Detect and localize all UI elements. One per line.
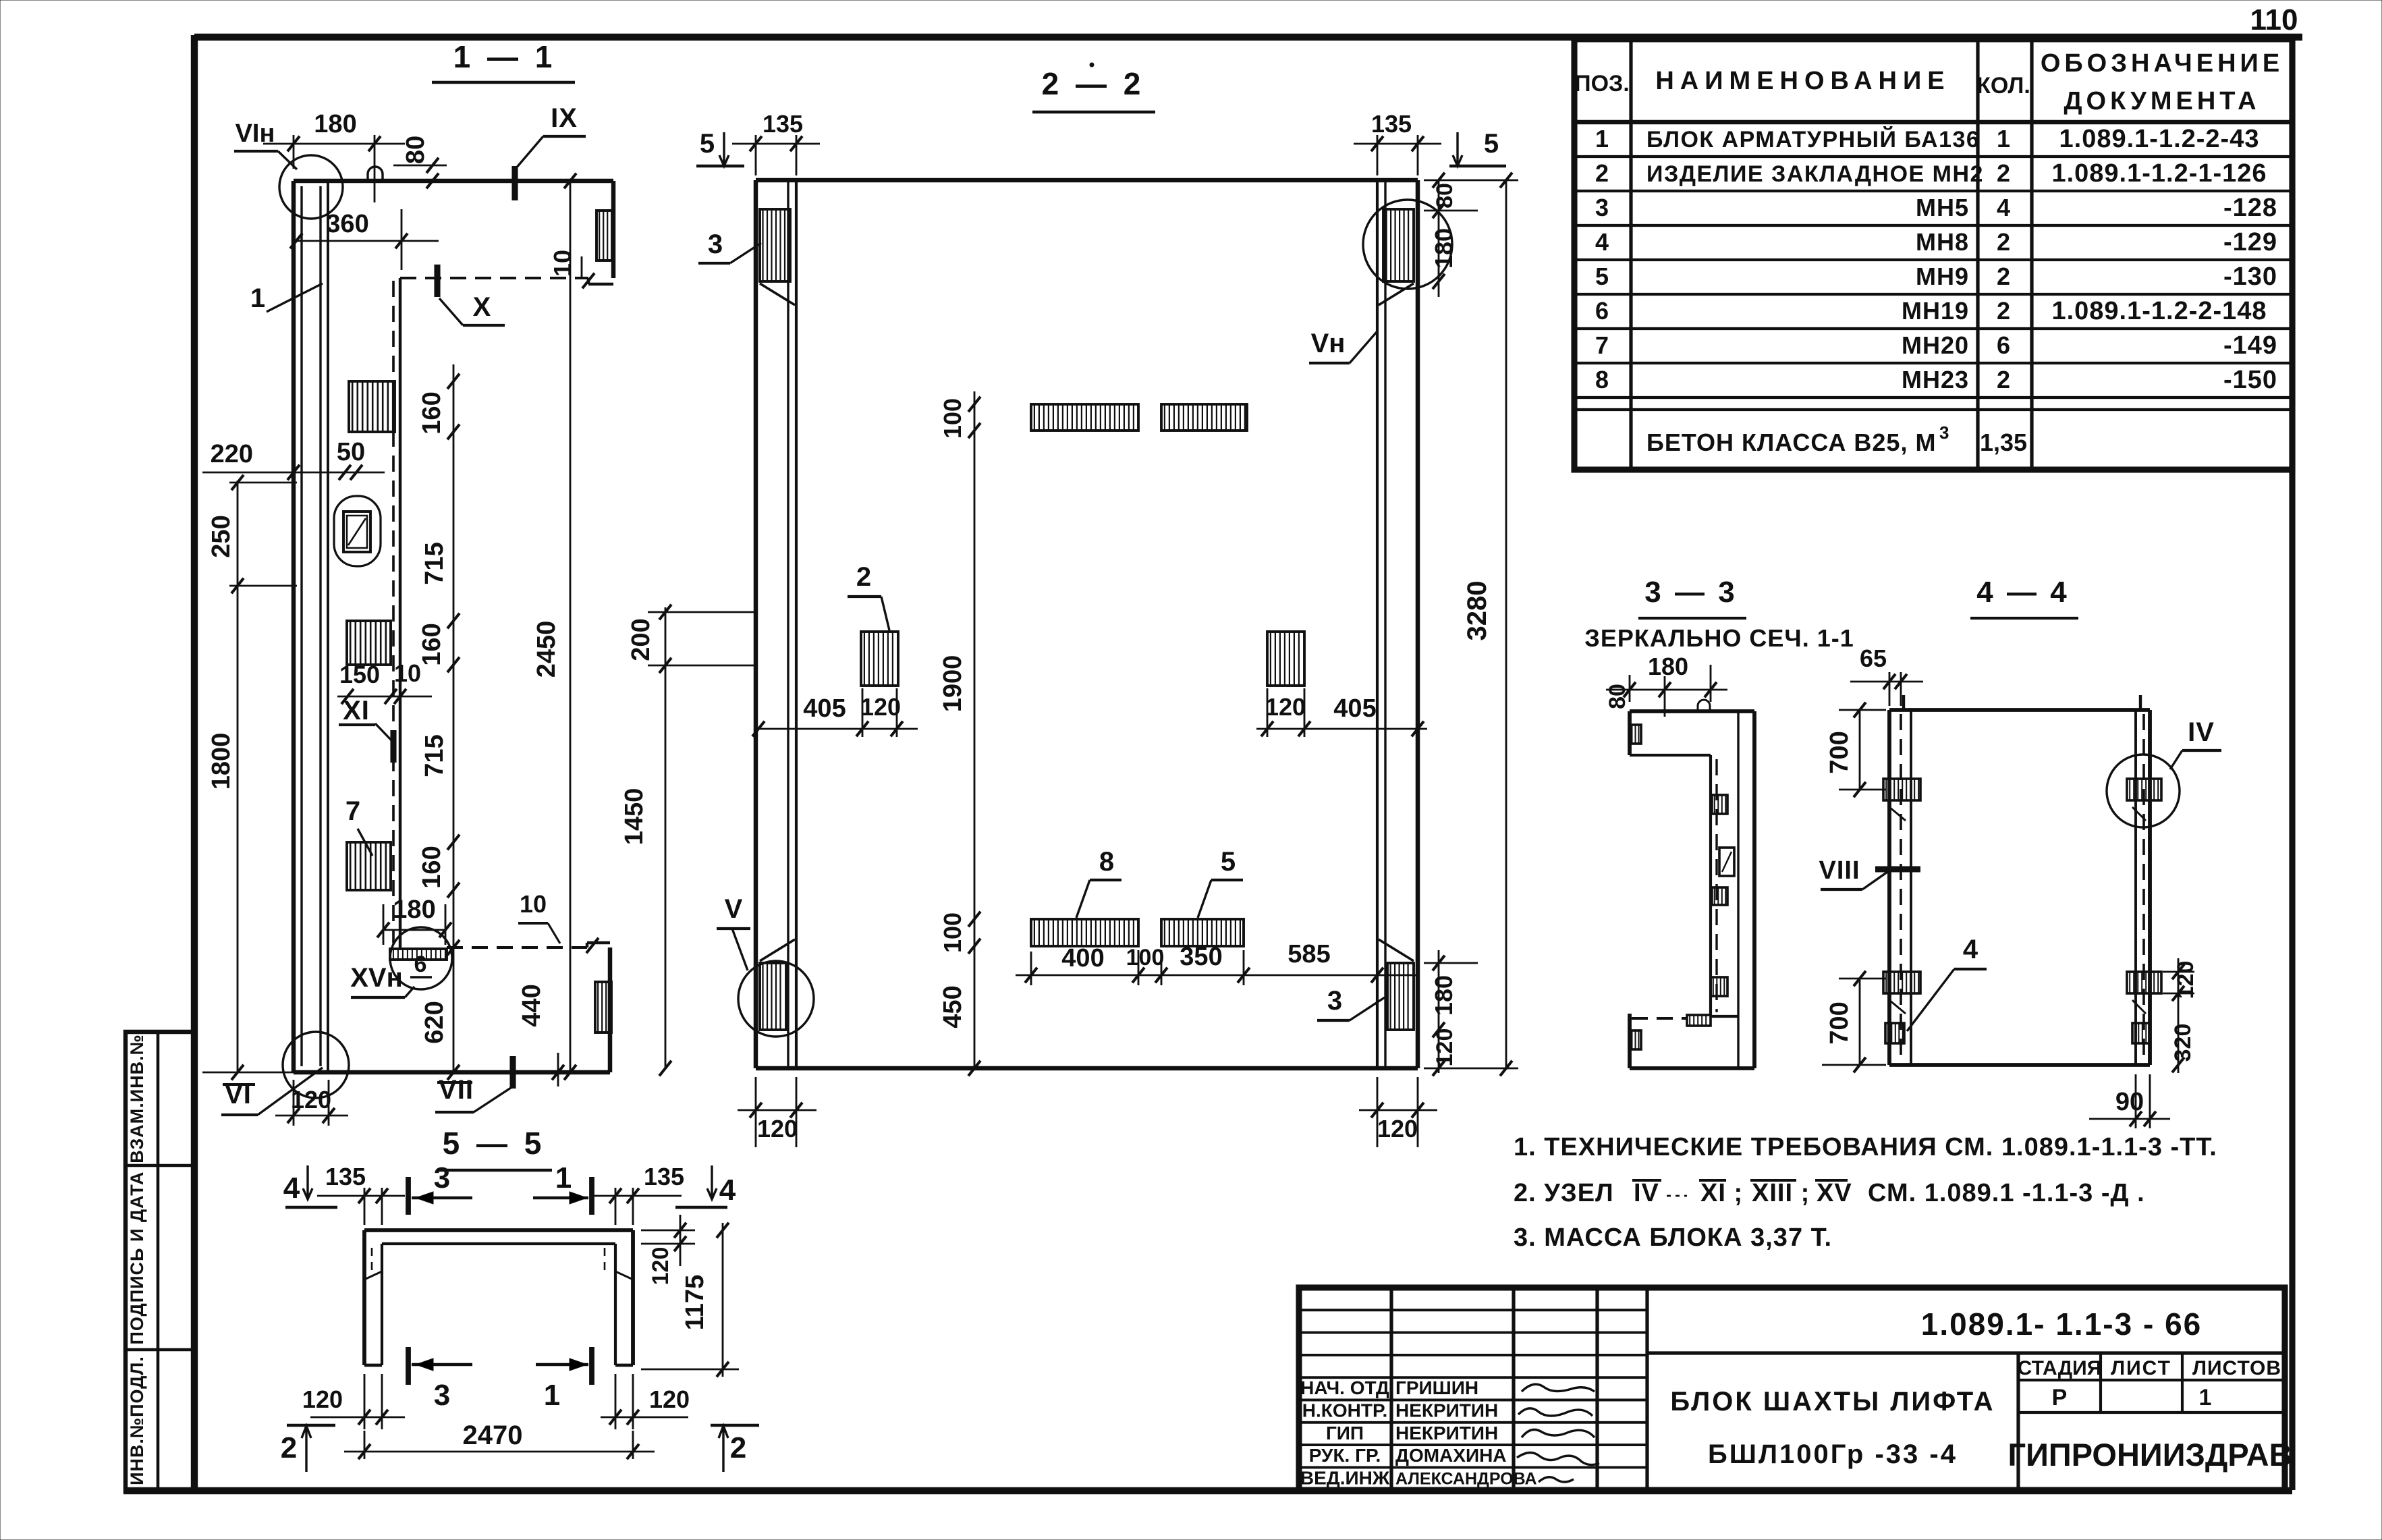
svg-text:3 — 3: 3 — 3 [1644,576,1737,609]
svg-text:ГРИШИН: ГРИШИН [1395,1377,1478,1398]
svg-text:160: 160 [418,391,446,434]
svg-text:1: 1 [2199,1385,2212,1410]
svg-text:1.089.1-1.2-1-126: 1.089.1-1.2-1-126 [2051,159,2267,188]
svg-text:ЛИСТ: ЛИСТ [2111,1357,2171,1379]
svg-text:320: 320 [2170,1024,2196,1062]
svg-text:5: 5 [700,129,715,159]
svg-text:3. МАССА БЛОКА 3,37 Т.: 3. МАССА БЛОКА 3,37 Т. [1514,1223,1832,1252]
svg-text:МН9: МН9 [1916,263,1969,290]
svg-text:4: 4 [1595,228,1609,256]
svg-text:XVн: XVн [350,963,403,993]
svg-text:110: 110 [2250,3,2298,36]
svg-text:4: 4 [1963,935,1978,964]
svg-text:2470: 2470 [463,1421,523,1450]
svg-text:Р: Р [2052,1385,2068,1410]
svg-text:СМ. 1.089.1 -1.1-3 -Д .: СМ. 1.089.1 -1.1-3 -Д . [1868,1179,2145,1207]
svg-text:10: 10 [520,890,547,918]
svg-text:МН19: МН19 [1902,297,1969,325]
svg-text:1175: 1175 [681,1275,709,1330]
svg-text:715: 715 [420,734,449,777]
svg-text:VII: VII [439,1075,474,1105]
svg-text:700: 700 [1825,1001,1854,1044]
svg-text:-130: -130 [2223,263,2277,291]
svg-text:НАЧ. ОТД: НАЧ. ОТД [1300,1377,1389,1398]
svg-text:ВЕД.ИНЖ: ВЕД.ИНЖ [1300,1468,1390,1489]
svg-text:4: 4 [1997,194,2010,221]
svg-text:VIII: VIII [1819,856,1860,885]
svg-text:V: V [725,894,743,924]
svg-text:ПОДПИСЬ И ДАТА: ПОДПИСЬ И ДАТА [127,1171,147,1344]
svg-text:ЛИСТОВ: ЛИСТОВ [2192,1357,2281,1379]
svg-text:120: 120 [648,1247,673,1286]
svg-text:2: 2 [1997,297,2010,325]
svg-text:80: 80 [1432,183,1458,209]
svg-text:-150: -150 [2223,366,2277,394]
svg-text:405: 405 [803,694,846,723]
svg-text:IV: IV [1634,1179,1659,1207]
svg-text:ГИП: ГИП [1326,1423,1364,1443]
svg-text:2: 2 [1997,263,2010,290]
svg-text:180: 180 [1430,975,1458,1016]
svg-text:МН23: МН23 [1902,366,1969,393]
svg-text:1900: 1900 [939,655,967,713]
svg-text:-128: -128 [2223,194,2277,222]
svg-text:715: 715 [420,542,449,584]
svg-text:135: 135 [1371,110,1412,138]
svg-text:180: 180 [1430,228,1458,269]
svg-text:120: 120 [2173,961,2198,999]
svg-text:4 — 4: 4 — 4 [1976,576,2069,609]
svg-text:XI ;: XI ; [1700,1179,1743,1207]
svg-text:БШЛ100Гр -33 -4: БШЛ100Гр -33 -4 [1708,1439,1958,1469]
svg-text:135: 135 [763,110,803,138]
svg-text:120: 120 [1377,1115,1418,1143]
svg-text:6: 6 [1997,331,2010,359]
svg-text:120: 120 [649,1385,690,1413]
svg-text:НЕКРИТИН: НЕКРИТИН [1395,1400,1498,1421]
svg-text:АЛЕКСАНДРОВА: АЛЕКСАНДРОВА [1395,1470,1537,1489]
svg-text:МН20: МН20 [1902,331,1969,359]
svg-text:135: 135 [325,1163,366,1190]
svg-text:2: 2 [1595,159,1609,187]
svg-text:100: 100 [939,398,966,439]
svg-text:ИЗДЕЛИЕ ЗАКЛАДНОЕ МН2: ИЗДЕЛИЕ ЗАКЛАДНОЕ МН2 [1646,161,1984,187]
svg-text:IV: IV [2188,717,2215,747]
svg-text:3: 3 [708,229,723,259]
svg-text:1: 1 [544,1379,560,1412]
svg-text:120: 120 [757,1115,798,1143]
svg-text:4: 4 [283,1172,300,1205]
svg-text:1: 1 [250,283,265,313]
svg-text:НЕКРИТИН: НЕКРИТИН [1395,1423,1498,1443]
svg-text:1: 1 [1595,125,1609,153]
svg-text:1: 1 [1997,125,2010,153]
svg-text:700: 700 [1825,731,1854,773]
svg-text:5: 5 [1484,129,1499,159]
svg-text:3: 3 [434,1161,450,1194]
svg-text:3: 3 [1939,422,1949,443]
svg-text:50: 50 [337,438,365,466]
svg-text:120: 120 [291,1086,331,1113]
svg-text:405: 405 [1333,694,1376,723]
svg-text:80: 80 [1605,684,1630,709]
svg-text:X: X [473,292,491,322]
svg-text:10: 10 [549,250,576,277]
svg-text:200: 200 [627,618,655,661]
svg-text:180: 180 [314,110,356,138]
svg-text:90: 90 [2115,1088,2144,1116]
svg-text:160: 160 [418,846,446,888]
svg-text:450: 450 [939,985,967,1028]
svg-text:-129: -129 [2223,228,2277,256]
svg-text:XIII ;: XIII ; [1752,1179,1810,1207]
svg-text:2: 2 [1997,228,2010,256]
svg-text:МН5: МН5 [1916,194,1969,221]
svg-text:БЛОК ШАХТЫ ЛИФТА: БЛОК ШАХТЫ ЛИФТА [1670,1387,1995,1417]
svg-text:80: 80 [401,136,430,164]
svg-text:7: 7 [1595,331,1609,359]
svg-text:ДОКУМЕНТА: ДОКУМЕНТА [2064,87,2260,115]
svg-text:ОБОЗНАЧЕНИЕ: ОБОЗНАЧЕНИЕ [2041,49,2283,78]
svg-text:350: 350 [1180,943,1222,971]
svg-text:4: 4 [719,1174,736,1207]
svg-text:160: 160 [418,623,446,665]
svg-text:2 — 2: 2 — 2 [1042,66,1145,101]
svg-text:1 — 1: 1 — 1 [453,39,557,74]
svg-text:МН8: МН8 [1916,228,1969,256]
svg-text:360: 360 [326,210,368,238]
svg-text:1.089.1-1.2-2-148: 1.089.1-1.2-2-148 [2051,297,2267,325]
svg-text:5: 5 [1595,263,1609,290]
svg-text:250: 250 [207,515,236,557]
svg-text:КОЛ.: КОЛ. [1976,73,2030,99]
svg-text:-149: -149 [2223,331,2277,360]
svg-text:120: 120 [302,1385,343,1413]
svg-text:1: 1 [555,1161,572,1194]
svg-text:180: 180 [393,896,435,924]
svg-text:135: 135 [644,1163,684,1190]
svg-text:ИНВ.№ПОДЛ.: ИНВ.№ПОДЛ. [127,1356,147,1485]
svg-text:ГИПРОНИИЗДРАВ: ГИПРОНИИЗДРАВ [2007,1437,2292,1473]
svg-text:РУК. ГР.: РУК. ГР. [1309,1445,1381,1466]
svg-text:3: 3 [434,1379,450,1412]
svg-text:585: 585 [1287,940,1330,968]
svg-text:65: 65 [1860,644,1887,672]
svg-text:1800: 1800 [207,733,236,790]
svg-text:5 — 5: 5 — 5 [443,1126,546,1161]
svg-text:180: 180 [1648,653,1688,680]
svg-text:2: 2 [281,1431,297,1464]
svg-text:Vн: Vн [1311,329,1346,358]
svg-text:БЛОК АРМАТУРНЫЙ БА136: БЛОК АРМАТУРНЫЙ БА136 [1646,126,1980,153]
svg-text:Н.КОНТР.: Н.КОНТР. [1302,1400,1387,1421]
svg-text:2: 2 [730,1431,746,1464]
svg-text:440: 440 [518,984,546,1026]
svg-text:8: 8 [1099,847,1114,877]
svg-text:XI: XI [343,696,370,725]
svg-text:2: 2 [1997,366,2010,393]
svg-text:3280: 3280 [1462,581,1492,641]
svg-text:620: 620 [420,1001,449,1043]
svg-text:220: 220 [211,440,253,468]
svg-text:7: 7 [345,796,360,826]
svg-text:VIн: VIн [236,119,275,148]
svg-text:2450: 2450 [532,621,561,678]
svg-text:120: 120 [860,693,901,721]
svg-text:XV: XV [1817,1179,1852,1207]
svg-text:2: 2 [856,562,871,592]
svg-text:ЗЕРКАЛЬНО СЕЧ. 1-1: ЗЕРКАЛЬНО СЕЧ. 1-1 [1584,624,1854,652]
svg-text:400: 400 [1061,944,1104,972]
svg-text:1.089.1-1.2-2-43: 1.089.1-1.2-2-43 [2059,125,2260,153]
svg-text:120: 120 [1432,1028,1458,1067]
svg-text:150: 150 [339,661,380,688]
svg-text:2. УЗЕЛ: 2. УЗЕЛ [1514,1179,1614,1207]
svg-text:10: 10 [394,659,421,687]
svg-text:ДОМАХИНА: ДОМАХИНА [1395,1445,1507,1466]
svg-text:3: 3 [1327,986,1342,1016]
svg-text:1450: 1450 [620,788,648,846]
svg-text:1.089.1- 1.1-3 - 66: 1.089.1- 1.1-3 - 66 [1921,1307,2202,1342]
svg-text:8: 8 [1595,366,1609,393]
svg-text:БЕТОН КЛАССА В25, М: БЕТОН КЛАССА В25, М [1646,429,1936,456]
svg-text:5: 5 [1221,847,1236,877]
svg-text:ПОЗ.: ПОЗ. [1574,71,1630,97]
svg-text:ВЗАМ.ИНВ.№: ВЗАМ.ИНВ.№ [127,1034,147,1163]
svg-text:СТАДИЯ: СТАДИЯ [2018,1357,2102,1379]
svg-text:НАИМЕНОВАНИЕ: НАИМЕНОВАНИЕ [1655,67,1950,95]
svg-text:6: 6 [414,952,427,977]
svg-text:IX: IX [551,103,578,133]
svg-text:120: 120 [1265,693,1306,721]
svg-text:1. ТЕХНИЧЕСКИЕ ТРЕБОВАНИЯ СМ: 1. ТЕХНИЧЕСКИЕ ТРЕБОВАНИЯ СМ. 1.089.1-1.… [1514,1133,2217,1161]
svg-text:100: 100 [939,912,966,953]
svg-text:3: 3 [1595,194,1609,221]
svg-text:100: 100 [1126,945,1165,970]
svg-text:2: 2 [1997,159,2010,187]
svg-text:1,35: 1,35 [1980,429,2027,456]
svg-text:6: 6 [1595,297,1609,325]
